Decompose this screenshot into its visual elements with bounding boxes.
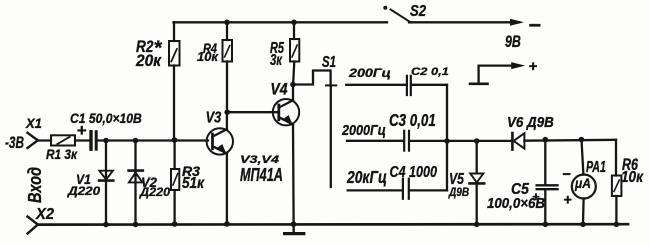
svg-text:51к: 51к: [182, 175, 205, 192]
svg-text:МП41А: МП41А: [240, 165, 283, 185]
svg-text:R1 3к: R1 3к: [46, 146, 78, 162]
svg-text:Д220: Д220: [139, 185, 170, 199]
svg-text:20кГц: 20кГц: [346, 167, 387, 187]
svg-text:3к: 3к: [270, 52, 283, 69]
svg-text:10к: 10к: [197, 50, 219, 64]
svg-text:S1: S1: [322, 54, 336, 71]
svg-text:+: +: [532, 189, 540, 204]
svg-text:S2: S2: [410, 3, 426, 20]
svg-text:С4 1000: С4 1000: [390, 164, 438, 181]
svg-text:C2 0,1: C2 0,1: [411, 66, 449, 78]
svg-text:PA1: PA1: [586, 159, 606, 176]
svg-text:−: −: [562, 167, 571, 183]
svg-text:Д220: Д220: [67, 184, 100, 198]
svg-text:10к: 10к: [621, 169, 644, 186]
svg-text:X2: X2: [35, 206, 54, 223]
svg-text:2000Гц: 2000Гц: [341, 122, 386, 139]
svg-text:V6 Д9В: V6 Д9В: [507, 114, 554, 131]
svg-text:Вход: Вход: [25, 167, 45, 203]
svg-text:Д9В: Д9В: [448, 186, 469, 199]
svg-text:V3: V3: [206, 109, 222, 126]
svg-text:20к: 20к: [135, 51, 162, 70]
svg-text:V4: V4: [270, 81, 287, 99]
svg-text:С3 0,01: С3 0,01: [389, 110, 436, 130]
svg-text:−: −: [528, 12, 541, 37]
svg-text:+: +: [529, 58, 538, 75]
svg-text:9В: 9В: [505, 32, 521, 51]
svg-text:+: +: [77, 121, 87, 140]
svg-text:+: +: [563, 193, 572, 209]
svg-text:200Гц: 200Гц: [348, 66, 391, 80]
svg-text:X1: X1: [25, 115, 42, 131]
svg-text:-3В: -3В: [5, 133, 24, 152]
svg-text:μА: μА: [574, 176, 591, 191]
